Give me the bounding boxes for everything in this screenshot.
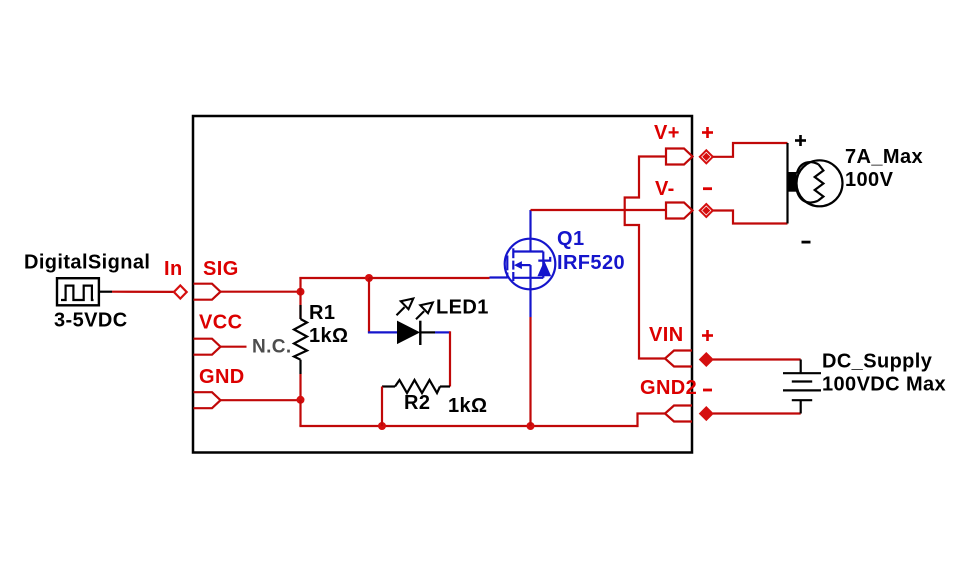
wire drain to V- connector xyxy=(531,209,667,211)
junction node C xyxy=(297,396,305,404)
wire V+ to VIN feed xyxy=(625,157,666,359)
wire R2 down to node D xyxy=(381,387,383,427)
wire node B down to LED1 anode xyxy=(368,278,370,332)
svg-text:VIN: VIN xyxy=(649,324,684,346)
junction node A xyxy=(297,288,305,296)
node V+ terminal (diamond) xyxy=(700,150,713,163)
plus mark at V+ xyxy=(702,127,713,138)
wire VCC to N.C. xyxy=(221,346,247,348)
svg-text:V-: V- xyxy=(655,178,675,200)
wire node C down to ground rail xyxy=(299,400,301,426)
resistor R2 xyxy=(382,380,450,393)
wire R1 to node C xyxy=(299,374,301,400)
connector VCC xyxy=(194,339,221,355)
svg-text:R1: R1 xyxy=(309,302,335,324)
source arrow line xyxy=(520,264,531,266)
connector V- xyxy=(666,203,693,219)
svg-text:SIG: SIG xyxy=(203,258,239,280)
connector SIG xyxy=(194,284,221,300)
LED1 diode xyxy=(368,299,450,346)
body diode triangle xyxy=(538,262,550,276)
gate lead (blue part) xyxy=(490,276,508,278)
channel bar (3 segments) xyxy=(512,248,514,258)
svg-text:DigitalSignal: DigitalSignal xyxy=(24,252,150,274)
wire gate rail left xyxy=(299,277,369,279)
wire rail to GND2 xyxy=(638,414,666,428)
svg-text:VCC: VCC xyxy=(199,312,242,334)
gate bar xyxy=(506,256,508,271)
svg-text:100V: 100V xyxy=(845,169,894,191)
drain lead xyxy=(529,210,531,253)
wire source to node E xyxy=(529,317,531,426)
junction node B xyxy=(365,274,373,282)
svg-text:7A_Max: 7A_Max xyxy=(845,146,923,168)
svg-text:IRF520: IRF520 xyxy=(557,252,625,274)
svg-text:LED1: LED1 xyxy=(436,297,489,319)
wire node A up xyxy=(299,277,301,293)
junction node D (R2 to rail) xyxy=(378,422,386,430)
right vertical / body diode branch xyxy=(542,252,544,278)
plus mark at lamp xyxy=(795,135,806,146)
ground rail wire xyxy=(299,425,637,427)
wire source V1 to node In xyxy=(112,291,174,293)
node GND2 terminal (solid diamond) xyxy=(700,407,713,420)
svg-text:V+: V+ xyxy=(654,122,680,144)
minus mark at GND2 xyxy=(703,389,712,392)
wire V- diamond to lamp minus xyxy=(713,211,788,224)
pin stub of source V1 xyxy=(99,291,112,293)
svg-text:1kΩ: 1kΩ xyxy=(309,325,348,347)
connector GND2 xyxy=(665,406,692,422)
transistor Q1 IRF520 (NMOS) xyxy=(490,210,556,317)
svg-text:In: In xyxy=(164,258,183,280)
battery DC_Supply xyxy=(783,360,821,414)
svg-text:DC_Supply: DC_Supply xyxy=(822,351,933,373)
wire VIN diamond to battery plus xyxy=(713,358,801,360)
svg-text:1kΩ: 1kΩ xyxy=(448,395,487,417)
module boundary box xyxy=(193,116,692,453)
emission arrows xyxy=(397,299,414,316)
wire SIG to node A xyxy=(221,291,301,293)
junction node E (source to rail) xyxy=(527,422,535,430)
wire V+ diamond to lamp plus xyxy=(713,143,788,157)
resistor R1 xyxy=(294,292,307,374)
connector V+ xyxy=(666,149,693,165)
mid vertical + source lead xyxy=(529,265,531,317)
svg-text:3-5VDC: 3-5VDC xyxy=(54,309,128,331)
svg-text:100VDC Max: 100VDC Max xyxy=(822,374,946,396)
connector GND xyxy=(194,392,221,408)
body diode cathode bar xyxy=(538,257,550,261)
svg-text:R2: R2 xyxy=(404,392,430,414)
bottom bar xyxy=(513,277,543,279)
node VIN terminal (solid diamond) xyxy=(700,353,713,366)
node V- terminal (diamond) xyxy=(700,204,713,217)
svg-text:GND2: GND2 xyxy=(640,377,697,399)
plus mark at VIN xyxy=(702,330,713,341)
wire GND to node C xyxy=(221,399,301,401)
lamp X1 xyxy=(787,143,843,224)
wire GND2 diamond to battery minus xyxy=(713,412,801,414)
top bar xyxy=(513,250,543,252)
source V1 DigitalSignal (square-wave source) xyxy=(57,278,99,305)
svg-text:N.C.: N.C. xyxy=(252,337,292,358)
svg-text:GND: GND xyxy=(199,366,245,388)
wire LED1 cathode down to R2 xyxy=(449,331,451,386)
wire gate rail right xyxy=(369,277,490,279)
minus mark at lamp xyxy=(802,241,811,244)
minus mark at V- xyxy=(703,187,712,190)
svg-text:Q1: Q1 xyxy=(557,228,584,250)
connector VIN xyxy=(665,351,692,367)
node In (hollow diamond) xyxy=(174,285,187,298)
